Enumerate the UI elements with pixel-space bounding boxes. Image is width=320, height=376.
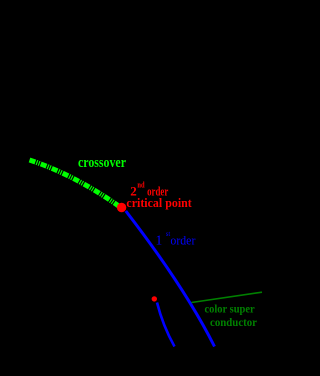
pointer line to color superconductor region: [192, 292, 263, 302]
svg-text:conductor: conductor: [210, 317, 257, 329]
crossover curve (dashed green): [30, 160, 121, 207]
svg-text:critical point: critical point: [126, 196, 192, 210]
lower short blue line: [157, 303, 175, 347]
svg-text:nd: nd: [137, 181, 145, 190]
svg-text:crossover: crossover: [78, 155, 126, 171]
1st order transition line: [126, 211, 215, 347]
svg-text:1: 1: [156, 232, 163, 247]
svg-text:order: order: [170, 232, 196, 247]
svg-text:color super: color super: [205, 303, 255, 315]
lower red dot: [152, 296, 157, 301]
critical point dot: [117, 203, 126, 212]
